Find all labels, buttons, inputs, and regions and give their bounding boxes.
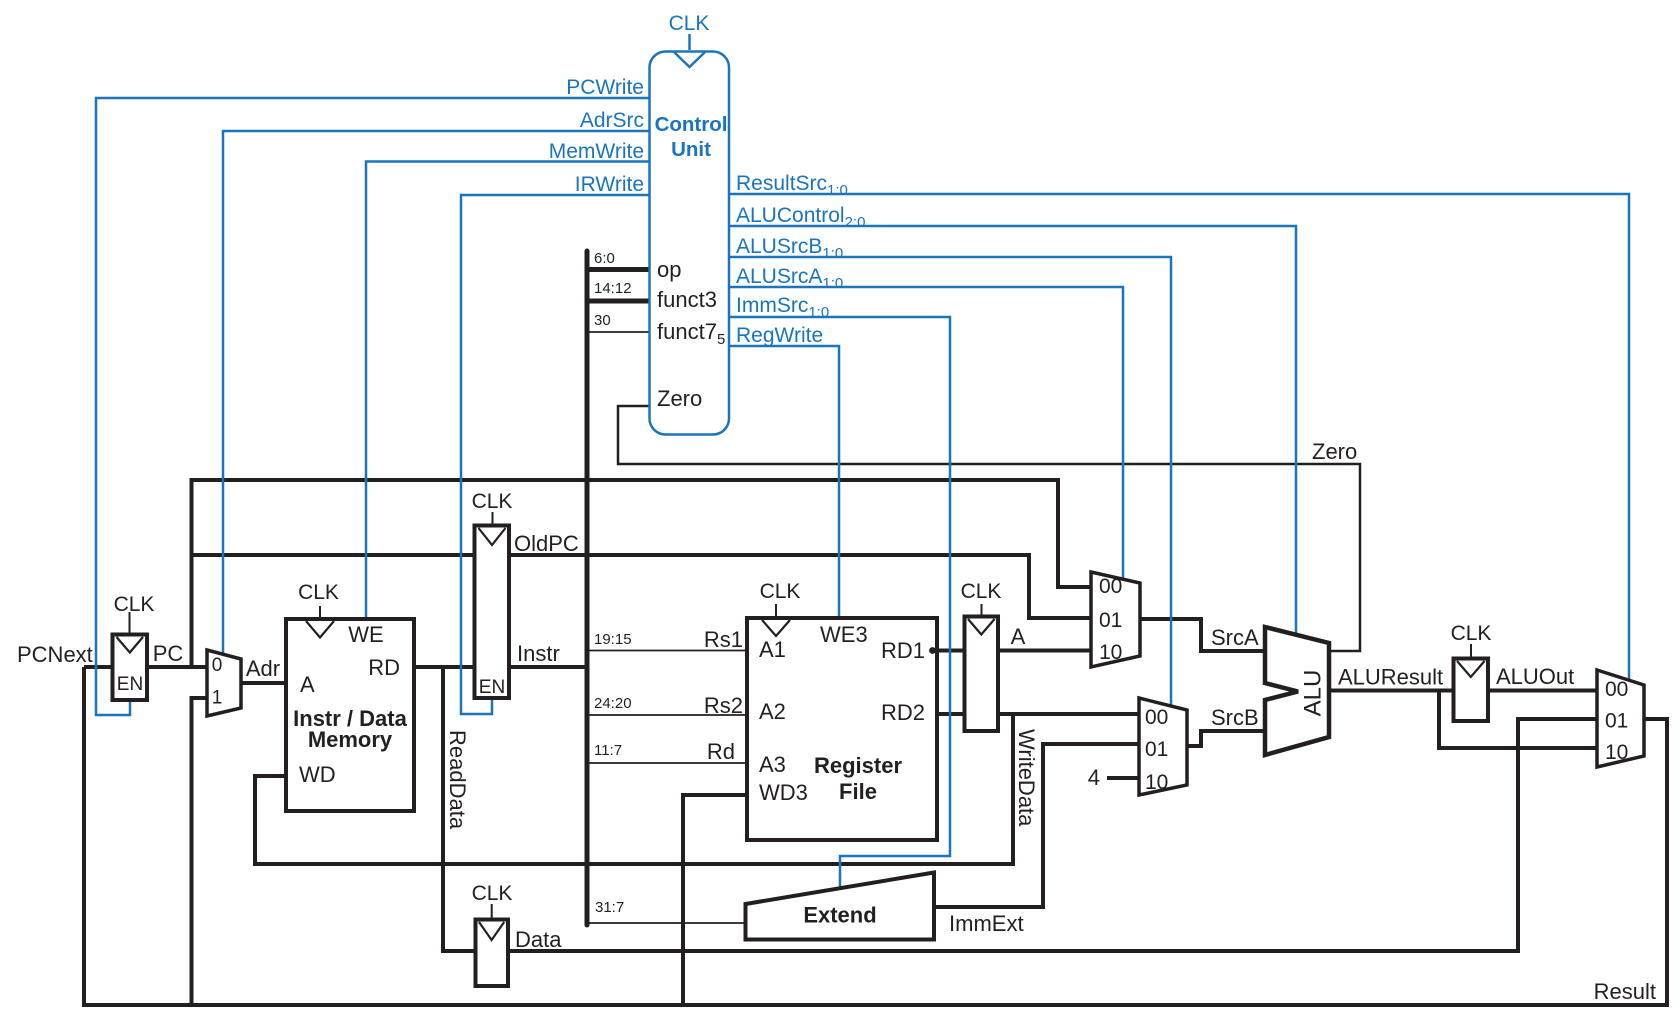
svg-text:10: 10 bbox=[1099, 641, 1122, 664]
Instr / Data Memory bbox=[286, 619, 414, 811]
svg-text:IRWrite: IRWrite bbox=[575, 173, 644, 196]
wire op field 6:0 bbox=[587, 267, 650, 272]
wire Zero from ALU to control unit bbox=[618, 406, 1360, 651]
SrcA mux bbox=[1091, 572, 1140, 667]
labels: small bit ranges bbox=[594, 250, 632, 916]
wire RD to Instr register and Instr to instruction bus bbox=[414, 665, 587, 669]
ALUOut register bbox=[1454, 659, 1489, 722]
wire Result to register file WD3 bbox=[683, 795, 747, 1005]
wire Rs1 field 19:15 bbox=[587, 650, 747, 652]
svg-text:Zero: Zero bbox=[657, 386, 702, 411]
svg-text:ALUOut: ALUOut bbox=[1496, 664, 1574, 689]
Result mux bbox=[1597, 670, 1644, 767]
svg-text:WD: WD bbox=[299, 762, 336, 787]
svg-text:CLK: CLK bbox=[1451, 622, 1492, 645]
labels: datapath signal names bbox=[17, 439, 1656, 1004]
wire ResultSrc bbox=[729, 194, 1629, 681]
wire ALUResult branch to Result mux input 10 bbox=[1439, 691, 1597, 749]
Data register bbox=[476, 920, 509, 987]
svg-text:A2: A2 bbox=[759, 699, 786, 724]
svg-text:File: File bbox=[839, 779, 877, 804]
svg-text:Adr: Adr bbox=[246, 656, 280, 681]
svg-text:00: 00 bbox=[1145, 706, 1168, 729]
svg-text:01: 01 bbox=[1145, 738, 1168, 761]
control unit bbox=[650, 52, 730, 435]
Adr mux bbox=[207, 650, 241, 716]
svg-text:Data: Data bbox=[515, 927, 562, 952]
svg-text:ReadData: ReadData bbox=[445, 730, 470, 830]
wire ReadData and Data to Result mux input 01 bbox=[443, 667, 1597, 951]
wire Rd field 11:7 bbox=[587, 762, 747, 764]
svg-text:OldPC: OldPC bbox=[514, 531, 579, 556]
wire ALUSrcA bbox=[729, 287, 1123, 579]
svg-text:EN: EN bbox=[117, 674, 143, 695]
wire RD1 to A register to SrcA mux input 10 bbox=[937, 649, 1091, 653]
svg-text:14:12: 14:12 bbox=[594, 280, 632, 297]
svg-text:Memory: Memory bbox=[308, 727, 393, 752]
wire Adr bbox=[241, 681, 286, 685]
svg-text:A1: A1 bbox=[759, 637, 786, 662]
svg-text:00: 00 bbox=[1099, 575, 1122, 598]
wire constant 4 to SrcB mux input 10 bbox=[1107, 776, 1139, 780]
svg-text:A: A bbox=[1011, 624, 1026, 649]
wire Result feedback (bottom) bbox=[84, 667, 1667, 1005]
svg-text:6:0: 6:0 bbox=[594, 250, 615, 267]
wire SrcB bbox=[1187, 731, 1265, 746]
svg-text:Rs1: Rs1 bbox=[704, 627, 743, 652]
svg-text:Unit: Unit bbox=[671, 138, 711, 161]
wire WriteData from RD2 to SrcB mux 00 and memory WD bbox=[937, 712, 1139, 716]
A / WriteData register bbox=[965, 617, 999, 732]
svg-text:MemWrite: MemWrite bbox=[549, 140, 644, 163]
svg-text:A: A bbox=[300, 672, 315, 697]
svg-text:00: 00 bbox=[1605, 678, 1628, 701]
svg-text:PCWrite: PCWrite bbox=[566, 76, 644, 99]
labels: mux inputs bbox=[212, 575, 1629, 794]
labels: block pin names bbox=[299, 622, 925, 805]
svg-text:WE3: WE3 bbox=[820, 622, 868, 647]
wire CLK tick control unit bbox=[688, 34, 691, 50]
labels: CLK black bbox=[114, 490, 1492, 905]
wire ALUControl bbox=[729, 226, 1296, 635]
wire PC to SrcA mux input 00 bbox=[192, 480, 1092, 667]
svg-text:PCNext: PCNext bbox=[17, 642, 93, 667]
svg-text:ALUResult: ALUResult bbox=[1338, 665, 1443, 690]
svg-text:CLK: CLK bbox=[298, 581, 339, 604]
svg-text:RD2: RD2 bbox=[881, 700, 925, 725]
svg-text:31:7: 31:7 bbox=[595, 899, 624, 916]
Extend bbox=[746, 873, 935, 940]
wire funct7 bit 30 bbox=[587, 331, 650, 333]
svg-text:RD: RD bbox=[368, 655, 400, 680]
wire PC to OldPC register and OldPC to SrcA mux input 01 bbox=[192, 555, 1092, 618]
svg-text:AdrSrc: AdrSrc bbox=[580, 109, 644, 132]
svg-text:CLK: CLK bbox=[472, 882, 513, 905]
svg-text:Register: Register bbox=[814, 753, 902, 778]
wire SrcA bbox=[1140, 619, 1265, 651]
svg-text:10: 10 bbox=[1145, 771, 1168, 794]
svg-text:24:20: 24:20 bbox=[594, 695, 632, 712]
svg-text:1: 1 bbox=[212, 688, 223, 709]
svg-text:ImmExt: ImmExt bbox=[949, 911, 1024, 936]
wire ImmSrc bbox=[729, 317, 950, 888]
svg-text:30: 30 bbox=[594, 312, 611, 329]
wire PCWrite bbox=[96, 98, 650, 715]
wire imm field 31:7 bbox=[587, 922, 746, 924]
labels: control unit pins bbox=[657, 257, 725, 411]
SrcB mux bbox=[1139, 698, 1187, 795]
svg-text:CLK: CLK bbox=[669, 12, 710, 35]
svg-text:PC: PC bbox=[153, 641, 184, 666]
svg-text:CLK: CLK bbox=[961, 580, 1002, 603]
svg-text:0: 0 bbox=[212, 655, 223, 676]
svg-text:CLK: CLK bbox=[472, 490, 513, 513]
svg-text:01: 01 bbox=[1099, 609, 1122, 632]
PC register bbox=[113, 635, 148, 701]
svg-text:RegWrite: RegWrite bbox=[736, 324, 823, 347]
wire funct3 field 14:12 bbox=[587, 299, 650, 304]
svg-text:WE: WE bbox=[348, 622, 383, 647]
svg-text:Extend: Extend bbox=[803, 903, 876, 928]
svg-text:19:15: 19:15 bbox=[594, 631, 632, 648]
svg-text:SrcA: SrcA bbox=[1211, 625, 1259, 650]
wire AdrSrc bbox=[223, 131, 650, 654]
labels: block titles bbox=[293, 706, 902, 928]
svg-text:RD1: RD1 bbox=[881, 638, 925, 663]
svg-text:11:7: 11:7 bbox=[594, 742, 622, 759]
labels: EN pins bbox=[117, 674, 505, 698]
svg-text:Zero: Zero bbox=[1312, 439, 1357, 464]
svg-text:Result: Result bbox=[1594, 979, 1656, 1004]
svg-text:Rd: Rd bbox=[707, 739, 735, 764]
svg-text:Control: Control bbox=[655, 113, 728, 136]
labels: blue control signals bbox=[549, 12, 866, 347]
svg-text:funct3: funct3 bbox=[657, 287, 717, 312]
svg-text:4: 4 bbox=[1088, 765, 1100, 790]
svg-text:funct75: funct75 bbox=[657, 319, 725, 348]
wire Result to Adr mux input 1 bbox=[192, 698, 208, 1005]
wire MemWrite bbox=[366, 162, 650, 620]
wire IRWrite bbox=[461, 195, 650, 714]
wire ALUResult to ALUOut register and Result mux area bbox=[1329, 689, 1597, 693]
instruction bus vertical bbox=[585, 251, 590, 925]
Instr/OldPC register bbox=[475, 526, 510, 699]
svg-text:A3: A3 bbox=[759, 752, 786, 777]
ALU bbox=[1265, 627, 1329, 755]
svg-text:WD3: WD3 bbox=[759, 780, 808, 805]
svg-text:op: op bbox=[657, 257, 681, 282]
wire ALUSrcB bbox=[729, 257, 1171, 706]
wire PCNext/PC bbox=[84, 665, 207, 669]
svg-text:ALU: ALU bbox=[1299, 670, 1326, 717]
svg-text:WriteData: WriteData bbox=[1014, 729, 1039, 827]
junction dot RD1 bbox=[929, 647, 936, 654]
Register File bbox=[747, 618, 937, 840]
wire ImmExt to SrcB mux input 01 bbox=[934, 744, 1139, 907]
svg-text:SrcB: SrcB bbox=[1211, 705, 1259, 730]
wire RegWrite bbox=[729, 346, 839, 619]
svg-text:CLK: CLK bbox=[114, 593, 155, 616]
wire Rs2 field 24:20 bbox=[587, 714, 747, 716]
svg-text:01: 01 bbox=[1605, 710, 1628, 733]
CLK ticks (black) bbox=[130, 512, 1472, 920]
svg-text:Rs2: Rs2 bbox=[704, 693, 743, 718]
svg-text:CLK: CLK bbox=[760, 580, 801, 603]
svg-text:10: 10 bbox=[1605, 741, 1628, 764]
svg-text:EN: EN bbox=[479, 677, 505, 698]
svg-text:Instr: Instr bbox=[517, 641, 560, 666]
